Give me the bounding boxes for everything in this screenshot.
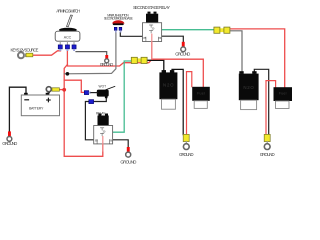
ring terminal: second stage relay ground bbox=[181, 47, 186, 52]
wire: WOT switch terminal 2 down to relay 1 pin 85 bbox=[85, 102, 93, 140]
svg-text:N2O: N2O bbox=[163, 83, 174, 88]
relay 1 pin markings bbox=[97, 128, 110, 144]
ring terminal: keys on source bbox=[18, 52, 26, 58]
N2O solenoid 1 base bbox=[162, 99, 176, 109]
crimp: battery ground bbox=[8, 131, 11, 136]
butt connector: top (green to red) bbox=[214, 27, 230, 33]
arming switch bezel bbox=[59, 28, 77, 32]
wire: push button left terminal down to red node (gray) bbox=[64, 32, 116, 74]
N2O solenoid 2 base bbox=[241, 100, 257, 109]
label: WOT switch bbox=[99, 85, 107, 89]
battery box bbox=[21, 95, 59, 116]
arming switch body bbox=[55, 31, 80, 41]
svg-text:KEYS 12V SOURCE: KEYS 12V SOURCE bbox=[11, 48, 39, 53]
label: N2O solenoid 2 bbox=[243, 85, 254, 90]
ring terminal: battery positive bbox=[46, 87, 51, 94]
arming switch spade terminal 3 bbox=[72, 45, 76, 51]
N2O solenoid 1 terminal tabs bbox=[162, 70, 175, 73]
wire: N2O solenoid 1 ground (black) bbox=[172, 69, 183, 134]
arming switch lever bbox=[67, 15, 73, 27]
arming switch terminal stems bbox=[60, 41, 74, 45]
wire: second stage relay pin 30 red tail bbox=[151, 34, 153, 59]
wire: keys-on source red lead bbox=[33, 51, 61, 55]
junction dot: battery positive node bbox=[62, 88, 66, 92]
svg-text:Fuel: Fuel bbox=[197, 91, 205, 95]
label: battery ground bbox=[2, 141, 17, 146]
wire: N2O solenoid 2 ground (black) bbox=[254, 69, 268, 134]
ring terminal: relay 1 ground bbox=[126, 152, 131, 157]
label: N2O solenoid 1 bbox=[163, 83, 174, 88]
wire: ACC switch terminal 3 to ground (gray) bbox=[76, 52, 107, 56]
second stage relay pin numbers bbox=[143, 27, 161, 40]
label: relay 1 ground bbox=[120, 160, 136, 165]
N2O solenoid 2 body bbox=[239, 74, 259, 101]
svg-text:ARMING SWITCH: ARMING SWITCH bbox=[56, 9, 80, 14]
second stage relay pin markings bbox=[146, 25, 159, 41]
WOT switch lever bbox=[106, 86, 115, 89]
label: battery bbox=[29, 107, 44, 111]
svg-text:WOT: WOT bbox=[99, 85, 107, 89]
svg-text:BATTERY: BATTERY bbox=[29, 107, 44, 111]
svg-text:SECOND STAGE RELAY: SECOND STAGE RELAY bbox=[133, 5, 170, 10]
wire: second stage relay pin 86 to ground bbox=[162, 36, 184, 42]
wire: middle connector black feed to N2O solenoid 1 bbox=[147, 60, 164, 72]
label: solenoid pair 2 ground bbox=[260, 152, 275, 157]
label: mini push button line 2 bbox=[104, 17, 134, 21]
battery plus sign bbox=[47, 98, 51, 102]
wire: Fuel solenoid 1 red supply from relay node bbox=[152, 59, 203, 86]
wire: battery negative to chassis ground bbox=[9, 87, 26, 131]
label: ACC on switch body bbox=[64, 35, 72, 39]
svg-text:GROUND: GROUND bbox=[179, 152, 194, 157]
svg-text:N2O: N2O bbox=[243, 85, 254, 90]
crimp: keys on source yellow bbox=[26, 53, 33, 57]
wire: red branch to WOT switch terminal 1 bbox=[64, 80, 84, 92]
wire: red branch down to battery junction and bottom run to relay 1 pin 30 bbox=[64, 65, 103, 157]
junction dot: push button feed node bbox=[66, 72, 70, 76]
crimp: relay 1 ground bbox=[127, 147, 130, 152]
label: keys on source bbox=[11, 48, 39, 53]
crimp: ACC ground bbox=[105, 55, 108, 59]
relay 1 pin numbers bbox=[95, 130, 113, 143]
second stage relay cap tabs bbox=[148, 12, 157, 14]
crimp: second stage relay ground bbox=[182, 42, 185, 47]
wire: WOT terminal 1 into switch body bbox=[91, 92, 97, 94]
svg-text:GROUND: GROUND bbox=[100, 62, 114, 67]
mini push button terminal 2 bbox=[119, 27, 122, 32]
svg-text:GROUND: GROUND bbox=[2, 141, 17, 146]
relay 1 box bbox=[94, 126, 113, 144]
label: ACC ground bbox=[100, 62, 114, 67]
battery minus sign bbox=[25, 99, 29, 101]
wire: gray feed from top connector to N2O solenoid 2 bbox=[230, 31, 242, 75]
wire: relay 1 pin 86 to ground bbox=[113, 140, 129, 147]
ring terminal: ACC ground bbox=[105, 59, 109, 63]
ring terminal: battery ground bbox=[7, 137, 12, 142]
svg-text:SECOND STAGE ENGAGE: SECOND STAGE ENGAGE bbox=[104, 17, 134, 21]
label: Fuel solenoid 1 bbox=[197, 91, 205, 95]
butt connector: middle (green to black) bbox=[131, 57, 147, 63]
wire: relay 1 pin 30 red tail bbox=[102, 137, 104, 151]
WOT switch terminal 2 bbox=[89, 100, 94, 104]
label: Fuel solenoid 2 bbox=[279, 92, 287, 96]
butt connector: solenoid pair 1 ground bbox=[183, 134, 189, 141]
Fuel solenoid 1 body bbox=[192, 87, 210, 101]
wire: green from second stage relay pin 87 to top butt connector bbox=[162, 29, 215, 31]
wire: Fuel solenoid 1 ground (red) bbox=[187, 72, 192, 135]
mini push button dome bbox=[112, 20, 124, 23]
wire: green from relay 1 pin 87 up to middle butt connector bbox=[113, 61, 132, 132]
ring terminal: solenoid pair 1 ground bbox=[183, 142, 189, 150]
WOT switch terminal 1 bbox=[84, 91, 91, 95]
wire: main red from ACC middle terminal to second stage relay pin 30 bbox=[67, 42, 151, 67]
Fuel solenoid 2 body bbox=[274, 87, 293, 101]
relay 1 cap bbox=[98, 116, 109, 126]
battery terminal tabs bbox=[24, 93, 49, 95]
svg-text:GROUND: GROUND bbox=[175, 52, 190, 57]
svg-text:GROUND: GROUND bbox=[260, 152, 275, 157]
arming switch spade terminal 1 bbox=[58, 45, 62, 51]
Fuel solenoid 2 base bbox=[276, 101, 290, 109]
crimp: battery positive yellow bbox=[52, 88, 59, 91]
wire: red supply from top connector to Fuel solenoid 2 bbox=[230, 29, 285, 88]
label: relay 1 bbox=[96, 111, 106, 115]
WOT switch lower pin bbox=[105, 96, 108, 99]
second stage relay cap bbox=[146, 14, 158, 23]
N2O solenoid 1 body bbox=[159, 72, 177, 99]
ring terminal: solenoid pair 2 ground bbox=[264, 142, 270, 150]
butt connector: solenoid pair 2 ground bbox=[264, 134, 270, 141]
wire: Fuel solenoid 2 ground (red) bbox=[266, 81, 276, 135]
label: solenoid pair 1 ground bbox=[179, 152, 194, 157]
second stage relay box bbox=[143, 23, 162, 42]
N2O solenoid 2 terminal tabs bbox=[239, 71, 256, 74]
Fuel solenoid 1 base bbox=[194, 101, 207, 109]
wire: WOT switch lower pin to terminal 2 bbox=[94, 98, 107, 102]
svg-text:ACC: ACC bbox=[64, 35, 72, 39]
label: second stage relay bbox=[133, 5, 170, 10]
wire: battery positive lead to junction bbox=[59, 89, 64, 91]
label: arming switch bbox=[56, 9, 80, 14]
mini push button base bbox=[113, 23, 124, 25]
arming switch spade terminal 2 bbox=[65, 45, 69, 51]
WOT switch body bbox=[97, 90, 109, 97]
svg-text:GROUND: GROUND bbox=[120, 160, 136, 165]
label: mini push button line 1 bbox=[107, 13, 129, 17]
mini push button terminal 1 bbox=[114, 27, 117, 32]
label: second stage relay ground bbox=[175, 52, 190, 57]
relay 1 cap tabs bbox=[98, 114, 108, 116]
svg-text:Fuel: Fuel bbox=[279, 92, 287, 96]
wire: push button right terminal to second stage relay pin 85 bbox=[120, 32, 142, 36]
